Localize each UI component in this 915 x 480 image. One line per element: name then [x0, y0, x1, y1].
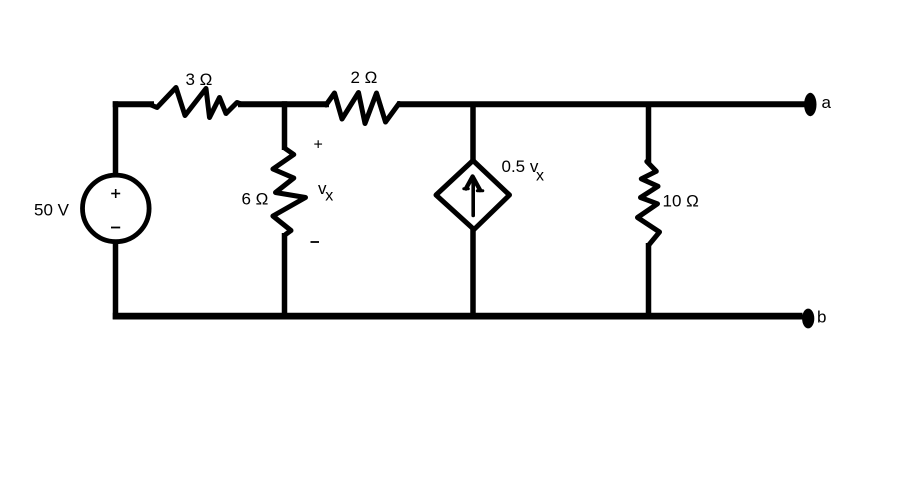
svg-text:50 V: 50 V	[34, 201, 70, 220]
resistor R 3ohm (hand-drawn zigzag)	[150, 88, 241, 118]
svg-text:x: x	[325, 188, 333, 205]
dependent current source 0.5vx (diamond symbol)	[436, 161, 510, 230]
svg-text:2 Ω: 2 Ω	[351, 68, 378, 87]
voltage source Vs 50 V (circle symbol)	[83, 175, 150, 242]
voltage source minus sign	[111, 227, 120, 229]
wire: bottom rail from voltage source to terminal b	[113, 313, 803, 320]
wire: 6ohm branch top segment	[282, 101, 288, 150]
terminal a (filled node)	[804, 93, 816, 116]
terminal b (filled node)	[802, 309, 814, 329]
wire: 6ohm branch bottom segment	[282, 233, 288, 319]
svg-text:0.5 v: 0.5 v	[502, 157, 539, 176]
resistor R 10ohm (hand-drawn vertical zigzag)	[638, 162, 660, 246]
label - polarity of vx	[311, 241, 320, 243]
dependent current source arrow (pointing up)	[464, 177, 483, 216]
svg-text:x: x	[536, 168, 544, 185]
voltage source plus sign	[111, 189, 120, 198]
wire: top rail from 2ohm to terminal a	[397, 101, 806, 107]
wire: top rail segment from left corner to resistor 3ohm	[113, 101, 154, 107]
wire: 10ohm branch top segment	[646, 102, 652, 164]
wire: top rail between 3ohm and 2ohm (node at 6ohm branch)	[238, 101, 329, 107]
svg-text:+: +	[314, 137, 323, 154]
svg-text:6 Ω: 6 Ω	[242, 190, 269, 209]
svg-text:3 Ω: 3 Ω	[186, 70, 213, 89]
wire: dependent source branch bottom segment	[470, 228, 476, 319]
resistor R 2ohm (hand-drawn zigzag)	[326, 93, 399, 124]
svg-text:10 Ω: 10 Ω	[663, 192, 699, 211]
svg-text:b: b	[817, 308, 826, 327]
wire: dependent source branch top segment	[470, 102, 476, 163]
resistor R 6ohm (hand-drawn vertical zigzag)	[273, 148, 306, 235]
svg-text:a: a	[822, 93, 832, 112]
wire: 10ohm branch bottom segment	[646, 243, 652, 319]
wire: left vertical, top rail to voltage source top	[113, 101, 119, 175]
wire: voltage source bottom to bottom rail	[113, 242, 119, 319]
